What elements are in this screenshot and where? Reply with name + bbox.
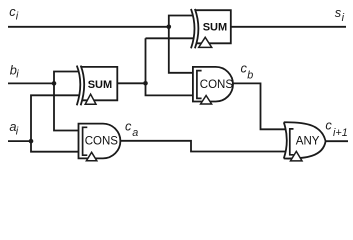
- svg-text:c: c: [125, 118, 132, 133]
- svg-text:b: b: [247, 69, 253, 81]
- svg-text:c: c: [325, 117, 332, 132]
- svg-text:a: a: [132, 127, 138, 139]
- svg-text:i+1: i+1: [333, 127, 348, 139]
- svg-text:CONS: CONS: [85, 135, 119, 147]
- svg-text:SUM: SUM: [203, 22, 227, 34]
- svg-text:SUM: SUM: [88, 79, 112, 91]
- svg-text:ANY: ANY: [296, 136, 320, 148]
- svg-text:CONS: CONS: [200, 79, 234, 91]
